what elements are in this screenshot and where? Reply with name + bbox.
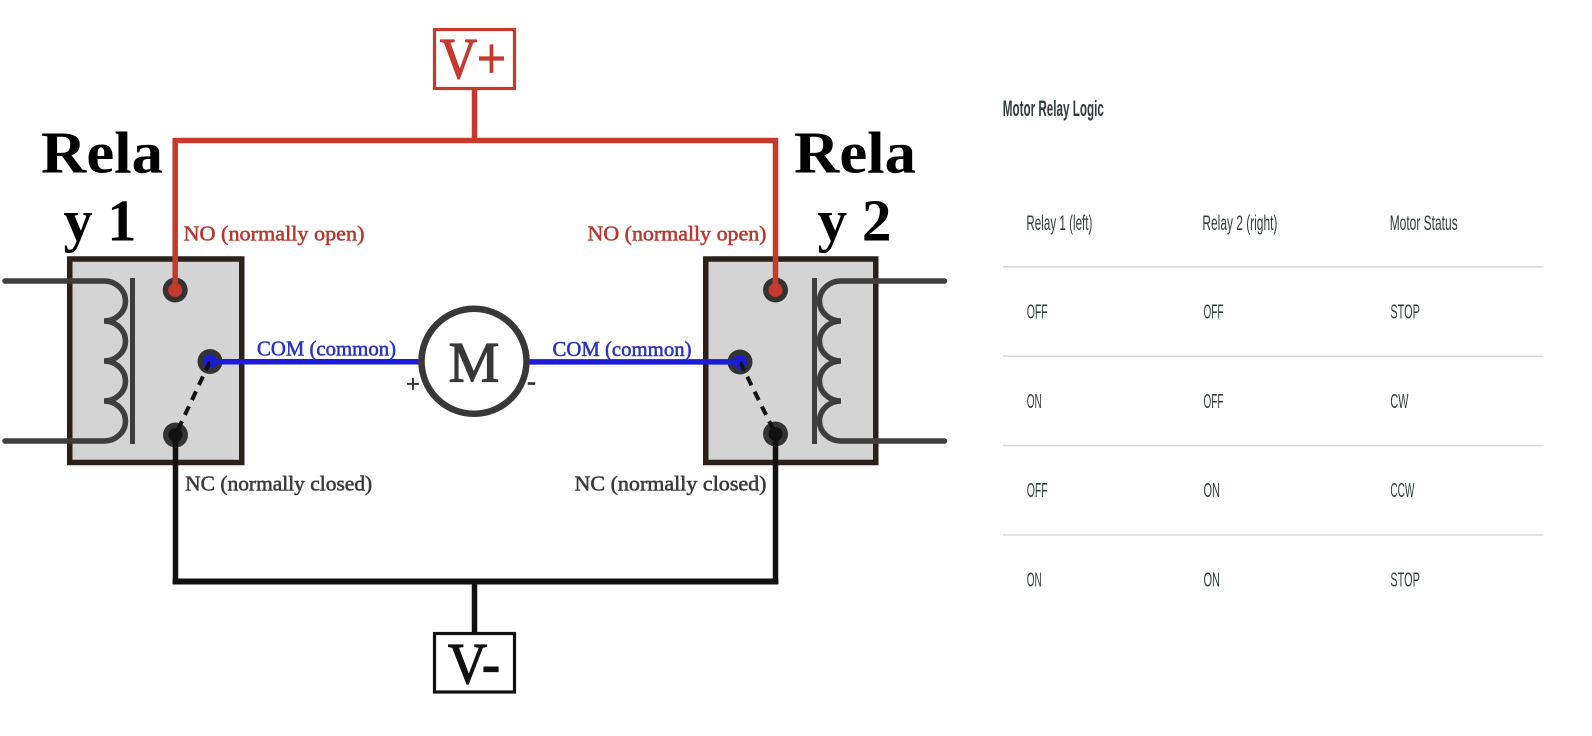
terminal NO relay1 [163,278,188,303]
motor M1 [422,309,527,414]
svg-text:OFF: OFF [1027,301,1048,323]
svg-text:-: - [527,367,536,396]
switch arm COM2-NC2 (dashed) [740,362,776,434]
svg-text:Motor Status: Motor Status [1390,212,1458,235]
wire V+ down to relay2 NO [773,138,779,290]
svg-text:ON: ON [1027,570,1042,592]
label Relay 2 [794,120,916,254]
relay K1 body [70,259,242,463]
wire V+ stub vertical [472,88,478,141]
svg-text:Rela: Rela [794,120,916,186]
svg-text:ON: ON [1027,391,1042,413]
svg-text:NC (normally closed): NC (normally closed) [185,471,372,495]
svg-text:y 1: y 1 [64,188,137,254]
terminal COM relay1 [198,349,223,374]
wire NC1 down [173,435,179,585]
coil K1 core bar [130,278,135,444]
svg-text:OFF: OFF [1204,391,1224,413]
wire V+ down to relay1 NO [172,138,178,290]
svg-text:ON: ON [1204,480,1221,502]
terminal COM relay2 [728,350,753,375]
supply V+ box [435,26,515,91]
svg-text:OFF: OFF [1204,301,1224,323]
svg-text:STOP: STOP [1390,570,1420,592]
svg-text:Relay 2 (right): Relay 2 (right) [1202,212,1277,235]
svg-text:COM (common): COM (common) [553,337,692,361]
wire bottom bus [173,579,779,585]
svg-text:CW: CW [1390,391,1408,413]
switch arm COM1-NC1 (dashed) [176,362,211,436]
svg-text:STOP: STOP [1390,301,1420,323]
terminal NC relay2 [763,422,788,447]
svg-text:CCW: CCW [1390,480,1414,502]
svg-text:NO (normally open): NO (normally open) [184,221,365,245]
svg-text:V+: V+ [440,26,506,91]
svg-text:NC (normally closed): NC (normally closed) [575,471,767,495]
wire motor to COM2 (blue) [520,359,740,365]
svg-text:V-: V- [448,631,500,696]
svg-text:Motor Relay Logic: Motor Relay Logic [1003,96,1104,121]
label Relay 1 [41,120,163,254]
coil K2 winding with external leads [820,281,945,441]
svg-text:M: M [449,332,500,395]
wire bus to V- [472,582,478,635]
svg-text:+: + [406,372,420,398]
svg-text:Relay 1 (left): Relay 1 (left) [1026,212,1092,235]
terminal NC relay1 [163,423,188,448]
svg-text:y 2: y 2 [818,188,892,254]
svg-text:OFF: OFF [1027,480,1048,502]
terminal NO relay2 [763,278,788,303]
table: Motor Relay Logic [1003,96,1544,592]
svg-text:ON: ON [1204,570,1221,592]
svg-text:Rela: Rela [41,120,163,186]
wire COM1 to motor (blue) [210,359,430,365]
svg-text:COM (common): COM (common) [257,336,396,360]
svg-text:NO (normally open): NO (normally open) [588,221,767,245]
wire NC2 down [773,434,779,585]
supply V- box [435,631,515,696]
wire V+ horizontal bus [173,138,779,144]
coil K2 core bar [812,278,817,444]
relay K2 body [706,259,876,463]
coil K1 winding with external leads [5,281,126,441]
